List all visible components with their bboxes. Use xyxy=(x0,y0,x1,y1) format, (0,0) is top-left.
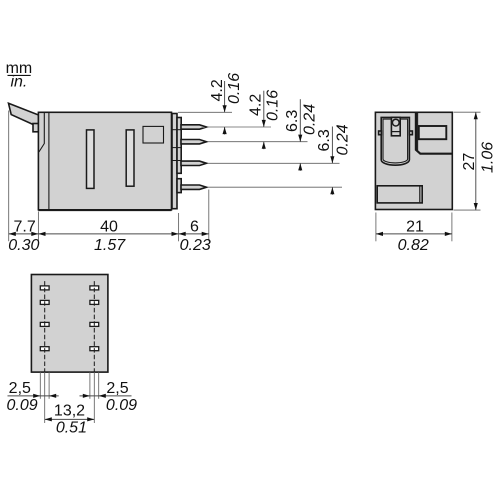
svg-text:2,5: 2,5 xyxy=(106,380,128,397)
svg-text:in.: in. xyxy=(10,74,27,91)
svg-text:27: 27 xyxy=(461,153,478,171)
svg-text:1.57: 1.57 xyxy=(94,237,126,254)
svg-text:0.16: 0.16 xyxy=(226,73,243,104)
svg-text:0.16: 0.16 xyxy=(265,90,282,121)
svg-text:7.7: 7.7 xyxy=(13,219,35,236)
svg-text:4.2: 4.2 xyxy=(209,79,226,101)
svg-text:6.3: 6.3 xyxy=(316,129,333,151)
svg-text:40: 40 xyxy=(100,219,118,236)
svg-text:13,2: 13,2 xyxy=(54,402,85,419)
svg-text:1.06: 1.06 xyxy=(480,142,497,173)
svg-text:6.3: 6.3 xyxy=(284,110,301,132)
svg-text:6: 6 xyxy=(190,219,199,236)
svg-text:2,5: 2,5 xyxy=(9,380,31,397)
svg-text:0.23: 0.23 xyxy=(180,237,211,254)
svg-text:0.51: 0.51 xyxy=(56,419,87,436)
svg-text:0.24: 0.24 xyxy=(335,124,352,155)
svg-text:21: 21 xyxy=(406,219,424,236)
svg-text:0.30: 0.30 xyxy=(8,237,39,254)
svg-text:0.09: 0.09 xyxy=(7,397,38,414)
svg-text:0.09: 0.09 xyxy=(106,397,137,414)
svg-text:4.2: 4.2 xyxy=(248,94,265,116)
svg-text:0.82: 0.82 xyxy=(398,237,429,254)
